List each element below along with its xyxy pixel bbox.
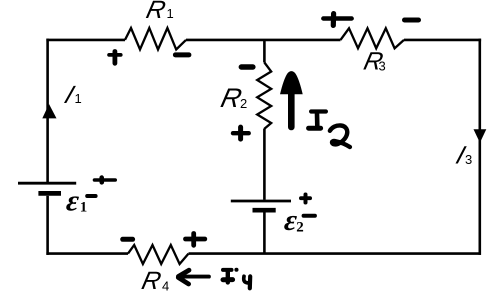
handwritten label I4 [223,270,250,289]
wire top-left segment [46,39,125,42]
svg-text:2: 2 [296,220,304,236]
svg-text:1: 1 [80,200,88,216]
svg-text:R: R [144,0,168,24]
plus sign at R1 left [109,53,121,57]
svg-text:1: 1 [75,91,82,106]
minus sign at E2 [304,214,315,218]
resistor R1 body [125,28,186,50]
svg-text:3: 3 [379,59,386,74]
wire middle mid [263,129,266,200]
minus sign at R2 top [241,64,253,69]
svg-text:2: 2 [240,96,247,111]
battery E2 short plate [253,208,276,213]
current arrow I4 (handwritten left arrow) [178,270,209,284]
svg-text:4: 4 [162,279,169,291]
current arrow I2 (thick up arrow) [280,71,303,130]
svg-text:1: 1 [167,6,174,21]
plus sign at E1 [95,178,116,182]
plus sign at R4 right [186,237,205,242]
minus sign at R3 right [405,18,419,23]
resistor R4 body [128,245,189,264]
battery E1 short plate [38,191,61,196]
wire middle upper [263,40,266,63]
wire top-right segment [404,39,481,42]
arrowhead I1 up [42,104,56,118]
plus sign at E2 [301,196,310,200]
resistor R3 body [341,28,405,48]
wire middle lower [263,212,266,254]
plus sign at R2 bottom [233,131,249,135]
wire right [478,39,481,255]
wire bottom-right segment [189,252,482,255]
svg-text:R: R [139,267,163,291]
svg-text:3: 3 [465,152,472,167]
wire left lower [46,196,49,255]
resistor R2 body [257,63,271,129]
arrowhead I3 down [474,129,487,143]
battery E1 long plate [18,182,76,185]
wire top-middle segment [186,39,341,42]
handwritten label I2 [309,112,350,148]
minus sign at E1 [87,194,95,198]
minus sign at R4 left [123,237,133,242]
minus sign at R1 right [175,52,189,57]
plus sign at R3 left [323,16,351,20]
wire left upper [46,39,49,182]
battery E2 long plate [231,200,291,203]
wire bottom-left segment [46,252,128,255]
